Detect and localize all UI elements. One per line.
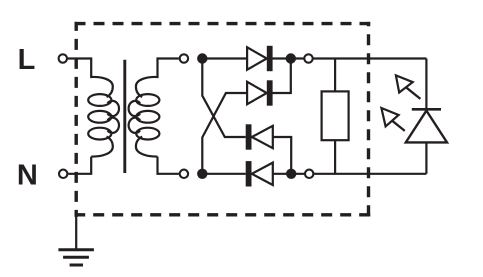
svg-text:N: N: [17, 160, 38, 192]
svg-text:L: L: [18, 44, 36, 76]
